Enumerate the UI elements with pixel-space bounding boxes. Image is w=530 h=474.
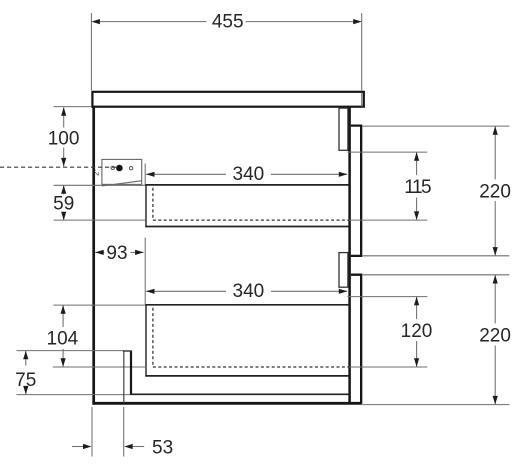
drawer front 1: [351, 126, 361, 256]
svg-text:340: 340: [233, 281, 265, 302]
svg-text:59: 59: [53, 194, 74, 215]
drawer box 2 dashed bottom: [153, 308, 349, 367]
svg-text:220: 220: [479, 325, 511, 346]
svg-text:2°: 2°: [91, 169, 100, 176]
dimension 59: [54, 185, 146, 220]
svg-text:120: 120: [401, 321, 433, 342]
drawer box 2 outline: [145, 304, 348, 376]
dimension 340 upper: [146, 172, 347, 177]
extension line x145: [144, 164, 146, 305]
countertop slab: [92, 92, 363, 107]
dimension 340 lower: [146, 289, 347, 294]
svg-text:104: 104: [47, 329, 79, 350]
dimension 220 lower: [363, 275, 510, 405]
dimension line 455: [91, 19, 361, 24]
svg-text:75: 75: [15, 370, 36, 391]
svg-text:93: 93: [106, 243, 127, 264]
extension line right of 455: [361, 13, 363, 90]
bracket axis dashed line: [0, 166, 117, 168]
dimension 120: [348, 297, 428, 367]
dimension 75: [17, 351, 131, 395]
bracket screw hole left: [111, 166, 114, 169]
extension line right of 455 inside countertop: [361, 93, 363, 107]
extension line left of 455: [90, 13, 92, 90]
drawer box 1 dashed bottom: [153, 188, 349, 220]
left wall: [92, 107, 95, 404]
dimension 220 upper: [363, 126, 510, 256]
svg-text:53: 53: [152, 438, 173, 459]
bracket pin: [116, 165, 123, 172]
drawer rail strip lower: [339, 253, 348, 288]
bottom slab top edge: [130, 393, 348, 395]
svg-text:340: 340: [233, 164, 265, 185]
dimension 104: [53, 305, 146, 367]
back panel notch: [123, 351, 132, 403]
svg-text:100: 100: [48, 128, 80, 149]
dimension 53: [72, 407, 144, 457]
right carcass edge: [348, 107, 351, 403]
dimension 93: [95, 250, 143, 255]
svg-text:115: 115: [404, 177, 431, 198]
drawer front 2: [351, 275, 361, 404]
bracket screw hole right: [129, 167, 132, 170]
drawer rail strip upper: [339, 108, 348, 150]
cabinet bottom: [92, 402, 361, 405]
dimension 115: [348, 152, 428, 220]
mounting bracket: [102, 159, 142, 186]
svg-text:220: 220: [479, 181, 511, 202]
svg-text:455: 455: [212, 11, 244, 32]
drawer box 1 outline: [145, 184, 348, 227]
dimension 100: [54, 107, 92, 167]
